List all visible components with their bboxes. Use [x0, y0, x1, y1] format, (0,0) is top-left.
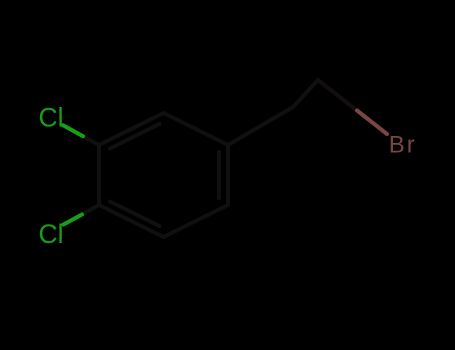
chain bond C1-C7: [228, 107, 293, 145]
benzene ring bond C2-C1 (top-right edge): [164, 113, 229, 145]
bond C3 to Cl (dark half): [83, 136, 99, 145]
bond C8 to Br (maroon half near Br): [357, 111, 387, 135]
bond C4 to Cl (dark half): [82, 205, 99, 215]
bond C3 to Cl (green half near Cl): [63, 125, 83, 136]
svg-text:Cl: Cl: [39, 102, 64, 132]
aromatic double bond inner line C2=C3: [110, 124, 160, 149]
benzene ring bond C1-C6 (right edge): [226, 145, 230, 205]
benzene ring bond C4-C3 (left edge): [97, 145, 101, 205]
bond C4 to Cl (green half near Cl): [64, 215, 83, 225]
bond C8 to Br (dark half): [318, 80, 357, 111]
svg-text:Br: Br: [389, 132, 417, 159]
svg-text:Cl: Cl: [39, 219, 64, 249]
aromatic double bond inner line C4=C5: [110, 202, 160, 227]
aromatic double bond inner line C6=C1: [217, 152, 221, 198]
benzene ring bond C6-C5 (bottom-right edge): [164, 205, 229, 237]
benzene ring bond C5-C4 (bottom-left edge): [99, 205, 164, 237]
benzene ring bond C3-C2 (top-left edge): [99, 113, 164, 145]
chain bond C7-C8: [293, 80, 318, 107]
